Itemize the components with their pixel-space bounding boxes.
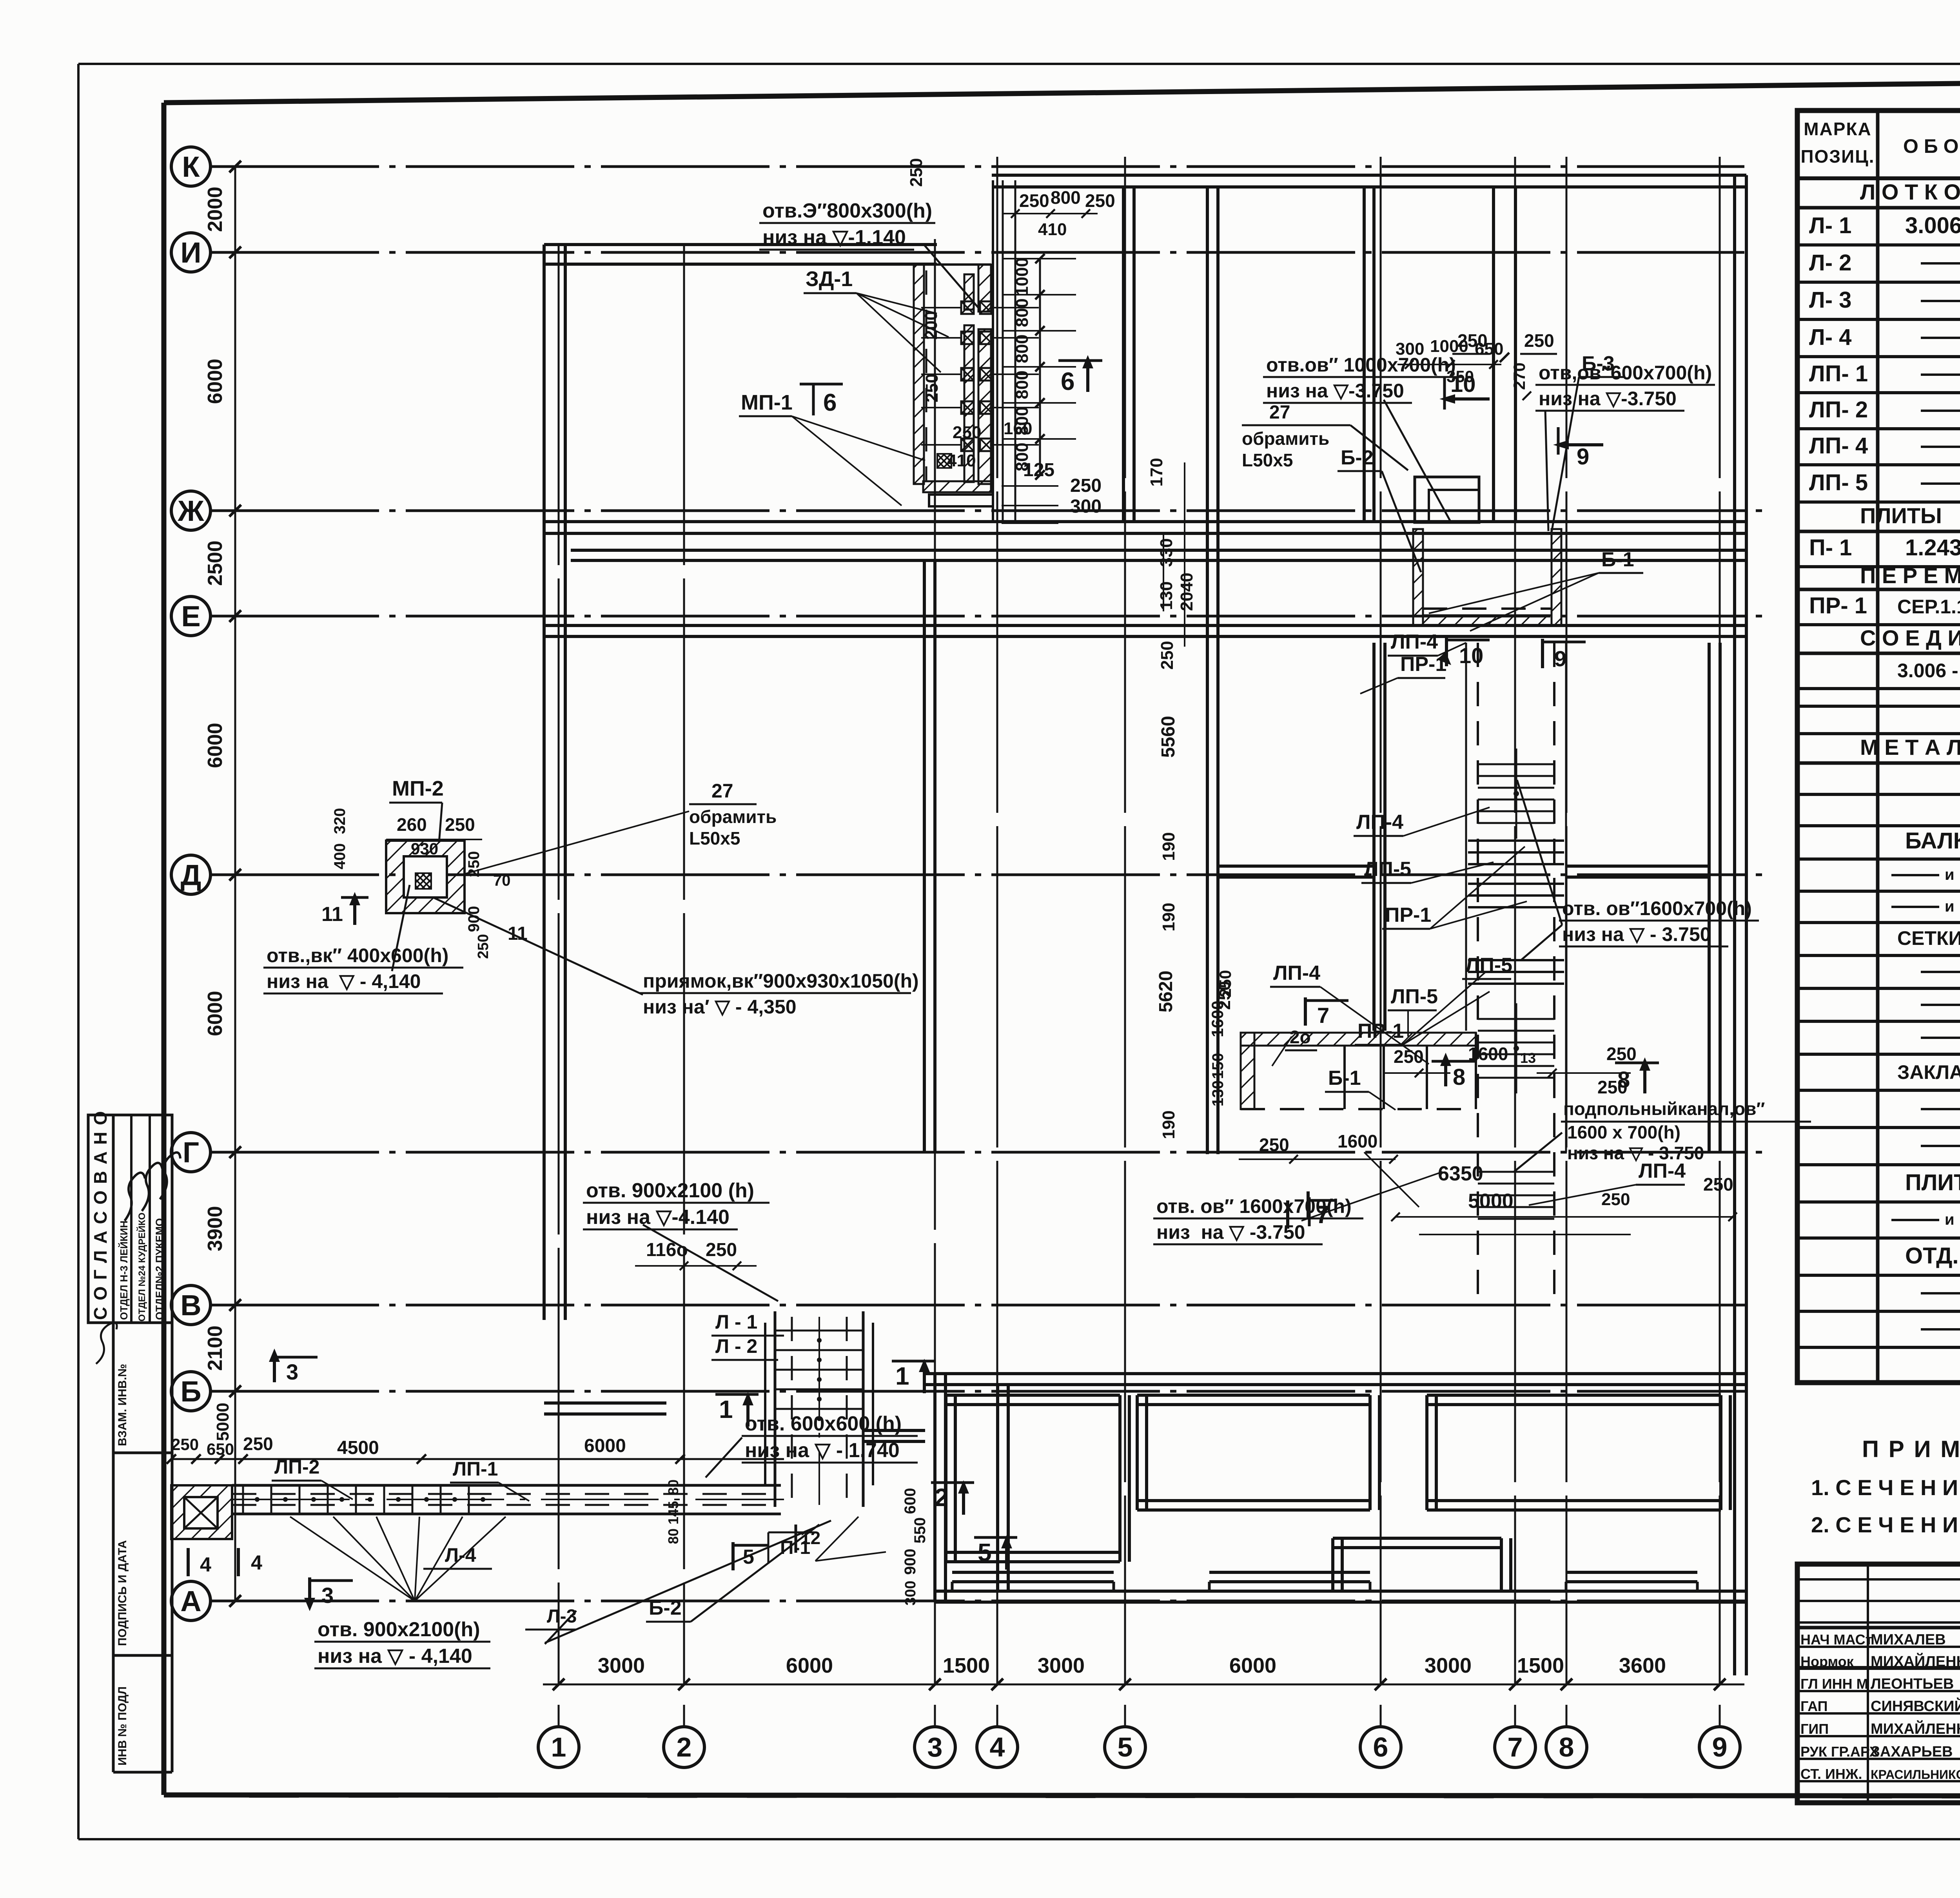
label ЛП-5 3 xyxy=(1462,954,1512,979)
svg-text:низ на ▽ - 1.740: низ на ▽ - 1.740 xyxy=(745,1439,900,1462)
svg-text:МП-1: МП-1 xyxy=(741,391,793,414)
wall central vertical x3080 xyxy=(1207,187,1218,1154)
svg-text:6000: 6000 xyxy=(584,1436,626,1456)
svg-text:9: 9 xyxy=(1554,646,1566,671)
dims 250 650 250 strip xyxy=(171,1434,626,1458)
svg-text:Л- 3: Л- 3 xyxy=(1809,287,1851,313)
svg-text:СЕТКИ АРМАТУРНЫЕ: СЕТКИ АРМАТУРНЫЕ xyxy=(1897,927,1960,949)
svg-text:ЛП- 4: ЛП- 4 xyxy=(1809,433,1868,459)
svg-text:9: 9 xyxy=(1712,1732,1728,1762)
label Л-2 xyxy=(711,1335,778,1360)
note отв ОВ 1000х700 xyxy=(1263,354,1463,521)
svg-text:1500: 1500 xyxy=(943,1654,990,1677)
svg-text:8: 8 xyxy=(1617,1067,1630,1093)
svg-text:5560: 5560 xyxy=(1158,716,1179,758)
svg-text:подпольныйканал,ов″: подпольныйканал,ов″ xyxy=(1563,1099,1765,1119)
svg-text:Б-1: Б-1 xyxy=(1328,1067,1361,1089)
svg-text:9: 9 xyxy=(1577,444,1589,470)
axis line К xyxy=(171,147,1744,186)
svg-text:250: 250 xyxy=(243,1434,273,1454)
svg-text:130: 130 xyxy=(1157,581,1176,610)
svg-text:обрамить: обрамить xyxy=(689,807,777,827)
svg-text:МАРКА: МАРКА xyxy=(1804,119,1872,139)
svg-text:отв.,вк″ 400х600(h): отв.,вк″ 400х600(h) xyxy=(267,944,448,966)
note отв ОВ 600х700 xyxy=(1535,362,1715,531)
dimension 2500 left chain xyxy=(204,540,227,586)
svg-text:930: 930 xyxy=(411,839,438,858)
svg-text:6: 6 xyxy=(1061,367,1075,395)
svg-text:и: и xyxy=(1945,898,1955,915)
svg-text:2000: 2000 xyxy=(204,187,227,232)
dims below Г xyxy=(1239,1131,1737,1235)
svg-text:250: 250 xyxy=(1601,1190,1630,1209)
svg-text:400: 400 xyxy=(331,843,348,870)
room box R1 xyxy=(946,1395,1129,1562)
svg-text:250: 250 xyxy=(1070,475,1102,496)
svg-text:800: 800 xyxy=(1013,298,1032,327)
svg-text:1.243.1 - 4: 1.243.1 - 4 xyxy=(1905,535,1960,560)
wall axis 5 upper xyxy=(1123,187,1134,522)
svg-text:ВЗАМ. ИНВ.№: ВЗАМ. ИНВ.№ xyxy=(116,1364,129,1446)
svg-text:5000: 5000 xyxy=(213,1403,232,1441)
stamp label отдел 3 xyxy=(118,1220,130,1320)
svg-text:ОТДЕЛ№2 ПУКЕМО: ОТДЕЛ№2 ПУКЕМО xyxy=(154,1218,165,1320)
svg-text:БАЛКИ: БАЛКИ xyxy=(1905,828,1960,854)
svg-text:отв. 900х2100(h): отв. 900х2100(h) xyxy=(318,1618,480,1641)
grid line 3 xyxy=(915,239,955,1767)
svg-text:ПР-1: ПР-1 xyxy=(1385,904,1431,926)
svg-text:низ на ▽-3.750: низ на ▽-3.750 xyxy=(1539,388,1677,410)
note отв 900х2100 upper xyxy=(583,1179,778,1301)
dimension 2100 left chain xyxy=(204,1325,227,1371)
grid line 6 xyxy=(1360,157,1401,1767)
svg-text:250: 250 xyxy=(1457,330,1488,351)
svg-text:200: 200 xyxy=(922,311,941,339)
label ПР-1 3 xyxy=(1355,972,1490,1045)
svg-text:низ на ▽-1.140: низ на ▽-1.140 xyxy=(762,226,906,249)
label ЛП-1 xyxy=(450,1458,529,1501)
svg-text:ЛП- 2: ЛП- 2 xyxy=(1809,397,1868,422)
wall along Д right part xyxy=(1218,866,1709,877)
svg-text:низ на ▽ - 3.750: низ на ▽ - 3.750 xyxy=(1562,923,1711,945)
mark 17 bottom xyxy=(1307,1191,1310,1220)
label ПР-1 mid xyxy=(1360,653,1446,694)
svg-text:3: 3 xyxy=(321,1583,334,1608)
svg-text:3000: 3000 xyxy=(1038,1654,1085,1677)
label Л-3 xyxy=(525,1606,577,1644)
label 27 обрамить mid xyxy=(465,780,777,874)
svg-text:800: 800 xyxy=(1051,187,1081,208)
svg-text:ОТД. СТЕРЖНИ: ОТД. СТЕРЖНИ xyxy=(1905,1243,1960,1269)
svg-text:ЛЕОНТЬЕВ: ЛЕОНТЬЕВ xyxy=(1871,1676,1954,1692)
svg-text:В: В xyxy=(180,1289,201,1322)
svg-text:ЗАХАРЬЕВ: ЗАХАРЬЕВ xyxy=(1871,1744,1953,1760)
svg-text:ЗАКЛАДНЫЕ ДЕТАЛИ: ЗАКЛАДНЫЕ ДЕТАЛИ xyxy=(1897,1061,1960,1083)
svg-text:4500: 4500 xyxy=(337,1438,379,1458)
svg-text:11: 11 xyxy=(321,903,343,926)
svg-text:5: 5 xyxy=(978,1538,992,1566)
wall right side axis 9 xyxy=(1735,175,1746,1675)
stamp signatures squiggle xyxy=(96,1153,180,1364)
channel rungs below Г xyxy=(1478,1172,1554,1219)
svg-text:170: 170 xyxy=(1147,458,1166,486)
svg-text:13: 13 xyxy=(1520,1050,1536,1066)
svg-text:250: 250 xyxy=(1216,970,1234,997)
svg-text:160: 160 xyxy=(1004,419,1032,438)
svg-text:350: 350 xyxy=(1446,367,1474,386)
svg-text:М Е Т А Л Л И Ч Е С К И Е: М Е Т А Л Л И Ч Е С К И Е И З Д Е Л И Я xyxy=(1860,735,1960,760)
svg-text:190: 190 xyxy=(1159,1110,1178,1139)
mark 5 left xyxy=(733,1542,768,1570)
horizontal channel box at Г xyxy=(1241,1033,1476,1109)
svg-text:ЗД-1: ЗД-1 xyxy=(806,267,853,291)
svg-text:Л О Т К О В Ы Е Э Л Е М Е: Л О Т К О В Ы Е Э Л Е М Е Н Т Ы К А Н А … xyxy=(1860,179,1960,204)
mark 7 bottom xyxy=(1288,1197,1337,1229)
svg-text:4: 4 xyxy=(251,1552,262,1574)
grid line 7 xyxy=(1495,157,1535,1767)
svg-text:ЛП-2: ЛП-2 xyxy=(274,1456,319,1478)
label МП-1 with mark xyxy=(739,384,925,506)
svg-text:П Е Р Е М Ы Ч К И: П Е Р Е М Ы Ч К И xyxy=(1860,563,1960,588)
dimension 1500 bottom chain xyxy=(1517,1654,1564,1677)
label Л-1 xyxy=(711,1311,784,1336)
svg-text:410: 410 xyxy=(947,451,976,470)
vertical label СОГЛАСОВАНО xyxy=(90,1110,111,1320)
dimension 3000 bottom chain xyxy=(598,1654,645,1677)
stamp label инв номер подл xyxy=(116,1686,129,1766)
wall left side axis 1 xyxy=(544,245,565,1320)
svg-text:4: 4 xyxy=(990,1732,1005,1762)
wall below Б segment left of axis 3 xyxy=(863,1430,925,1441)
chamber walls between Ж и Е xyxy=(1413,529,1561,625)
svg-text:ПОЗИЦ.: ПОЗИЦ. xyxy=(1800,146,1875,167)
svg-text:1: 1 xyxy=(895,1362,909,1390)
svg-text:7: 7 xyxy=(1508,1732,1523,1762)
svg-text:ПР- 1: ПР- 1 xyxy=(1809,593,1867,618)
dims above shaft xyxy=(907,158,1115,239)
svg-text:300: 300 xyxy=(1070,496,1102,517)
svg-text:800: 800 xyxy=(1013,334,1032,363)
svg-text:О Б О З Н А Ч Е Н И Е: О Б О З Н А Ч Е Н И Е xyxy=(1903,135,1960,157)
note подпольный канал xyxy=(1514,1099,1811,1172)
mark 1 left xyxy=(715,1392,759,1427)
svg-text:1: 1 xyxy=(719,1395,733,1423)
label Б-2 xyxy=(1338,446,1421,572)
svg-text:250: 250 xyxy=(1606,1044,1637,1064)
svg-text:70: 70 xyxy=(493,872,511,889)
svg-text:ЛП-4: ЛП-4 xyxy=(1273,962,1320,984)
dims left of box xyxy=(1208,970,1234,1106)
svg-text:Ж: Ж xyxy=(178,495,205,527)
south wall step 3 xyxy=(1566,1572,1697,1591)
svg-text:СИНЯВСКИЙ: СИНЯВСКИЙ xyxy=(1871,1697,1960,1715)
grid line 8 xyxy=(1546,157,1587,1767)
dimension 1500 bottom chain xyxy=(943,1654,990,1677)
note отв Э 800х300 xyxy=(759,199,980,310)
svg-text:С О Г Л А С О В А Н О: С О Г Л А С О В А Н О xyxy=(90,1110,111,1320)
dimension 6000 left chain xyxy=(204,991,227,1036)
stamp label отдел 2 xyxy=(154,1218,165,1320)
svg-text:Б-1: Б-1 xyxy=(1601,548,1634,571)
svg-text:7: 7 xyxy=(1317,1003,1329,1028)
svg-text:и: и xyxy=(1945,1211,1955,1228)
mark 12 small xyxy=(796,1525,820,1553)
svg-text:116o: 116o xyxy=(646,1240,688,1260)
svg-text:Л- 4: Л- 4 xyxy=(1809,324,1851,350)
mark 3 strip xyxy=(269,1349,318,1384)
svg-text:Б-2: Б-2 xyxy=(1341,446,1374,469)
dim 5000 vertical xyxy=(213,1403,232,1441)
svg-text:Л- 1: Л- 1 xyxy=(1809,213,1851,238)
svg-text:6000: 6000 xyxy=(1229,1654,1276,1677)
svg-text:600: 600 xyxy=(902,1488,919,1514)
svg-text:П- 1: П- 1 xyxy=(1809,535,1852,560)
label Б-3 xyxy=(1552,352,1624,532)
wall axis 3 bottom xyxy=(935,1374,946,1602)
svg-text:ЛП- 1: ЛП- 1 xyxy=(1809,361,1868,386)
dims 250 1600 250 mid xyxy=(1384,1044,1637,1097)
wall below Ж left corridor xyxy=(571,550,1746,560)
svg-text:550: 550 xyxy=(911,1517,929,1544)
svg-text:270: 270 xyxy=(1510,363,1528,390)
stamp label подпись и дата xyxy=(116,1540,129,1646)
svg-text:250: 250 xyxy=(1085,190,1115,211)
axis line Е xyxy=(171,596,1772,636)
vertical channel Л-1 Л-2 xyxy=(765,1311,873,1507)
label 27 обрамить top xyxy=(1242,402,1408,470)
svg-text:ЛП- 5: ЛП- 5 xyxy=(1809,470,1868,495)
svg-text:ОТДЕЛ Н-3 ЛЕЙКИН: ОТДЕЛ Н-3 ЛЕЙКИН xyxy=(118,1220,130,1320)
room box R3 xyxy=(1427,1395,1730,1510)
svg-text:СТ. ИНЖ.: СТ. ИНЖ. xyxy=(1800,1766,1862,1782)
label ЛП-2 xyxy=(272,1456,353,1499)
svg-text:250: 250 xyxy=(1158,641,1177,669)
svg-text:ЛП-4: ЛП-4 xyxy=(1639,1160,1686,1182)
svg-text:ПР-1: ПР-1 xyxy=(1357,1020,1404,1042)
svg-text:27: 27 xyxy=(1269,402,1290,423)
svg-text:6000: 6000 xyxy=(204,359,227,404)
svg-text:Е: Е xyxy=(181,600,200,633)
svg-text:ЛП-5: ЛП-5 xyxy=(1364,858,1411,881)
svg-text:Б-3: Б-3 xyxy=(1582,352,1615,375)
svg-text:Б-2: Б-2 xyxy=(649,1597,682,1619)
bottom horizontal channel strip xyxy=(232,1485,784,1514)
svg-text:Л - 1: Л - 1 xyxy=(715,1311,757,1333)
note отв ВК 400х600 xyxy=(263,885,463,993)
svg-text:3600: 3600 xyxy=(1619,1654,1666,1677)
label ЛП-5 2 xyxy=(1361,858,1494,883)
dimension 3000 bottom chain xyxy=(1038,1654,1085,1677)
dimension 6000 left chain xyxy=(204,723,227,768)
grid line 5 xyxy=(1105,157,1145,1767)
label Б-1 box xyxy=(1325,1067,1396,1110)
mark 10 top xyxy=(1439,372,1490,410)
bottom strip end box hatched xyxy=(171,1485,232,1539)
svg-text:5620: 5620 xyxy=(1156,971,1176,1013)
svg-text:приямок,вк″900х930х1050(h): приямок,вк″900х930х1050(h) xyxy=(643,970,919,992)
mark 10 mid xyxy=(1437,637,1490,668)
channel ladder rungs ЛП-5 xyxy=(1478,749,1554,1093)
svg-text:250: 250 xyxy=(475,934,492,959)
grid line 4 xyxy=(977,157,1018,1767)
svg-text:250: 250 xyxy=(445,814,475,835)
svg-text:ЛП-5: ЛП-5 xyxy=(1465,954,1512,977)
grid line 1 xyxy=(538,244,579,1767)
svg-text:250: 250 xyxy=(1019,190,1049,211)
left dimension chain line xyxy=(234,167,236,1601)
label ЗД-1 xyxy=(804,267,949,372)
svg-text:И: И xyxy=(180,236,201,269)
svg-text:НАЧ МАСт: НАЧ МАСт xyxy=(1800,1632,1872,1648)
svg-text:МИХАЙЛЕНК0: МИХАЙЛЕНК0 xyxy=(1871,1720,1960,1737)
mark 1 right xyxy=(892,1359,935,1393)
svg-text:1600 х 700(h): 1600 х 700(h) xyxy=(1567,1122,1681,1142)
svg-text:250: 250 xyxy=(1703,1174,1733,1195)
svg-text:2: 2 xyxy=(677,1732,692,1762)
mark 5 up xyxy=(974,1535,1017,1570)
grid line 2 xyxy=(664,244,704,1767)
label П-1 xyxy=(768,1517,886,1564)
wall south bottom xyxy=(935,1591,1746,1602)
svg-text:5000: 5000 xyxy=(1468,1190,1514,1213)
svg-text:низ на ▽ - 4,140: низ на ▽ - 4,140 xyxy=(267,970,421,992)
axis line Д xyxy=(171,855,1772,894)
dims inside shaft xyxy=(922,311,1102,523)
svg-text:650: 650 xyxy=(207,1440,234,1458)
axis line И xyxy=(171,233,1744,272)
svg-text:1600: 1600 xyxy=(1208,1001,1227,1037)
svg-text:и: и xyxy=(1945,866,1955,883)
svg-text:250: 250 xyxy=(171,1435,199,1454)
svg-text:низ на ▽ - 4,140: низ на ▽ - 4,140 xyxy=(318,1645,472,1668)
svg-text:Л-3: Л-3 xyxy=(547,1606,577,1627)
svg-text:5: 5 xyxy=(1118,1732,1133,1762)
stamp label отдел 24 xyxy=(136,1213,147,1322)
svg-text:МП-2: МП-2 xyxy=(392,777,444,800)
svg-text:РУК ГР.АРХ: РУК ГР.АРХ xyxy=(1800,1744,1879,1760)
label ЛП-5 left xyxy=(1388,985,1438,1037)
svg-text:П Р И М Е Ч А Н И Я :: П Р И М Е Ч А Н И Я : xyxy=(1862,1436,1960,1462)
dims 1160 250 xyxy=(635,1240,757,1270)
svg-text:80: 80 xyxy=(665,1528,681,1544)
dimension 3900 left chain xyxy=(204,1206,227,1251)
svg-text:6: 6 xyxy=(1373,1732,1388,1762)
wall along Ж axis xyxy=(544,522,1746,533)
axis line А xyxy=(171,1581,1752,1621)
svg-text:Л - 2: Л - 2 xyxy=(715,1335,757,1357)
svg-text:Нормок: Нормок xyxy=(1800,1653,1854,1670)
svg-text:8: 8 xyxy=(1453,1064,1465,1090)
axis line Б xyxy=(171,1372,1752,1411)
dimension 3000 bottom chain xyxy=(1425,1654,1472,1677)
svg-text:6: 6 xyxy=(823,389,837,416)
svg-text:250: 250 xyxy=(465,851,483,877)
mark 3 lower xyxy=(304,1577,353,1611)
label Б-1 upper xyxy=(1429,548,1643,631)
svg-text:3: 3 xyxy=(927,1732,943,1762)
svg-text:300: 300 xyxy=(1396,339,1424,359)
central channel dashed xyxy=(1466,643,1566,1309)
wall along И axis xyxy=(544,245,937,264)
svg-text:250: 250 xyxy=(1259,1135,1289,1155)
label 20 dim xyxy=(1272,1027,1317,1066)
axis line Г xyxy=(171,1133,1772,1172)
note отв ОВ 1600х700 mid xyxy=(1517,780,1759,960)
svg-text:130: 130 xyxy=(1209,1080,1227,1107)
svg-text:ПОДПИСЬ И ДАТА: ПОДПИСЬ И ДАТА xyxy=(116,1540,129,1646)
svg-text:ЛП-4: ЛП-4 xyxy=(1356,811,1403,834)
svg-text:3.006-2 В.I: 3.006-2 В.I xyxy=(1905,213,1960,238)
mark 8 right xyxy=(1615,1057,1659,1093)
svg-text:1600: 1600 xyxy=(1338,1131,1377,1151)
svg-text:250: 250 xyxy=(953,423,981,442)
svg-text:3.006 - 2 В -Ⅱ- 3: 3.006 - 2 В -Ⅱ- 3 xyxy=(1897,660,1960,682)
svg-text:отв. 900х2100 (h): отв. 900х2100 (h) xyxy=(586,1179,754,1202)
note отв ОВ 1600х700 bottom-left xyxy=(1153,1172,1443,1244)
svg-text:250: 250 xyxy=(706,1240,737,1260)
note отв 900х2100 bottom xyxy=(314,1521,831,1668)
label ЛП-4 mid xyxy=(1388,631,1466,656)
lintel rungs ПР-1 at Д xyxy=(1468,841,1564,907)
wall above Б right part xyxy=(924,1374,1746,1385)
dims 300 1000 650 xyxy=(1396,337,1531,400)
svg-text:Б: Б xyxy=(180,1375,201,1408)
notes примечания xyxy=(1811,1436,1960,1537)
dimension 6000 left chain xyxy=(204,359,227,404)
svg-text:ИНВ № ПОДЛ: ИНВ № ПОДЛ xyxy=(116,1686,129,1766)
mark 4 strip xyxy=(188,1548,262,1576)
svg-text:ПЛИТЫ ПЛОСКИЕ ЖЕЛЕЗОБ: ПЛИТЫ ПЛОСКИЕ ЖЕЛЕЗОБЕТОННЫЕ‧ xyxy=(1860,503,1960,528)
svg-text:2100: 2100 xyxy=(204,1325,227,1371)
svg-text:320: 320 xyxy=(331,808,348,834)
mark 9 mid xyxy=(1543,639,1586,671)
svg-text:К: К xyxy=(182,150,200,183)
title block xyxy=(1797,1564,1960,1803)
note приямок ВК xyxy=(433,897,919,1018)
svg-text:410: 410 xyxy=(1038,220,1067,239)
dimension 6000 bottom chain xyxy=(786,1654,833,1677)
svg-text:ПР-1: ПР-1 xyxy=(1400,653,1446,676)
svg-text:МИХАЙЛЕНКО: МИХАЙЛЕНКО xyxy=(1871,1652,1960,1670)
svg-text:отв,ов″600х700(h): отв,ов″600х700(h) xyxy=(1539,362,1712,384)
svg-text:отв. ов″1600х700(h): отв. ов″1600х700(h) xyxy=(1562,897,1752,919)
stamp label взам инв xyxy=(116,1364,129,1446)
dimension 2000 left chain xyxy=(204,187,227,232)
svg-text:8: 8 xyxy=(1559,1732,1574,1762)
svg-text:10: 10 xyxy=(1459,643,1483,668)
svg-text:250: 250 xyxy=(922,373,942,402)
svg-text:80: 80 xyxy=(665,1479,681,1495)
svg-text:125: 125 xyxy=(1023,460,1054,480)
приямок МП-2 hatched box xyxy=(386,841,465,913)
svg-text:1000: 1000 xyxy=(1013,257,1032,296)
svg-text:190: 190 xyxy=(1159,832,1178,861)
svg-text:1. С Е Ч Е Н И Я 1-1 ÷ 6-6: 1. С Е Ч Е Н И Я 1-1 ÷ 6-6 см лист АСО-2… xyxy=(1811,1475,1960,1500)
svg-text:А: А xyxy=(180,1585,201,1617)
dimension 3600 bottom chain xyxy=(1619,1654,1666,1677)
label ЛП-4 2 xyxy=(1354,807,1490,836)
label Л-4 fan xyxy=(290,1517,506,1601)
svg-text:2: 2 xyxy=(935,1483,949,1512)
svg-text:отв. 600х600 (h): отв. 600х600 (h) xyxy=(745,1412,902,1435)
svg-text:ГЛ ИНН М: ГЛ ИНН М xyxy=(1800,1676,1868,1692)
room box R2 xyxy=(1137,1395,1379,1510)
svg-text:низ на ▽ -3.750: низ на ▽ -3.750 xyxy=(1156,1221,1305,1243)
svg-text:2o: 2o xyxy=(1290,1027,1311,1047)
svg-text:СЕР.1.138-10 ВЫП. 1: СЕР.1.138-10 ВЫП. 1 xyxy=(1897,596,1960,618)
wall along К axis xyxy=(992,175,1746,187)
south wall step 2 xyxy=(1209,1572,1370,1591)
